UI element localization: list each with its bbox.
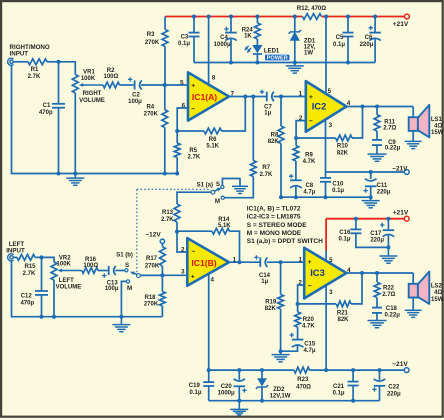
wire R14 to out node — [230, 231, 240, 262]
node C1 bus — [57, 172, 61, 176]
ground bottom — [230, 401, 248, 415]
wire C3 to ground line — [193, 37, 195, 62]
label R5 — [188, 148, 201, 161]
wire ZD1 to ground line — [294, 40, 296, 62]
label C19 — [189, 383, 202, 396]
node C12 bus — [40, 315, 44, 319]
node ZD2 bus — [260, 368, 264, 372]
ground top-left bus — [66, 174, 84, 186]
wire bus to C20 — [238, 370, 240, 380]
potentiometer VR2 — [51, 262, 57, 280]
label LS1 — [431, 117, 444, 136]
wire C17 to node — [387, 236, 389, 248]
wire node to R18 — [161, 275, 163, 291]
resistor R20 — [295, 312, 301, 327]
svg-text:C6: C6 — [365, 35, 373, 41]
ground bottom-left bus — [112, 317, 130, 332]
node out R22 — [375, 271, 379, 275]
capacitor C7 — [267, 92, 274, 102]
label M contact a — [215, 198, 220, 205]
svg-text:4.7K: 4.7K — [302, 324, 315, 330]
svg-text:270K: 270K — [145, 263, 160, 269]
ground LS2 — [405, 310, 422, 317]
svg-text:4.7μ: 4.7μ — [303, 348, 315, 354]
svg-text:1: 1 — [298, 256, 302, 263]
label R20 — [302, 317, 315, 330]
label C13 — [105, 280, 119, 292]
label C1 — [39, 103, 53, 116]
node gnd LED1 — [255, 61, 259, 65]
wire C19 to bottom line — [208, 387, 210, 401]
svg-text:82K: 82K — [337, 317, 349, 323]
capacitor C19 — [203, 382, 214, 386]
wire C13 to S contact b — [115, 270, 125, 272]
svg-text:470p: 470p — [39, 110, 53, 116]
note dpdt — [247, 238, 323, 245]
wire pole a to R13 — [177, 192, 211, 204]
svg-text:C21: C21 — [333, 384, 345, 390]
ground C18 — [368, 321, 387, 328]
marker IC1A minus — [191, 106, 195, 113]
wire mid ground line — [281, 196, 371, 198]
pin 4 IC1B — [210, 276, 214, 283]
svg-text:220μ: 220μ — [360, 42, 374, 48]
plus C17 — [380, 223, 384, 227]
wire C22 to bottom line — [379, 386, 381, 400]
svg-text:IC1(A): IC1(A) — [192, 92, 217, 102]
svg-text:−: − — [308, 283, 312, 290]
label C10 — [332, 181, 344, 194]
pin 1 IC1B — [233, 256, 237, 263]
wire R5 to bus — [176, 158, 178, 174]
label C15 — [303, 342, 315, 355]
svg-text:IC1(A, B) = TL072: IC1(A, B) = TL072 — [247, 205, 301, 212]
svg-text:R6: R6 — [209, 137, 217, 143]
wire pin3 row — [140, 274, 187, 276]
wire +21V rail left segment — [165, 16, 302, 18]
node R4 bus — [163, 172, 167, 176]
label R13 — [161, 210, 174, 223]
svg-text:R13: R13 — [162, 210, 174, 216]
svg-text:C10: C10 — [332, 181, 344, 187]
wire C7 to IC2 pin1 — [274, 96, 306, 98]
node out R10fb — [361, 105, 365, 109]
wire LS2 to ground — [412, 298, 414, 311]
op-amp IC1(A) — [188, 72, 229, 120]
node rail C6 — [373, 15, 377, 19]
wiper VR1 — [79, 83, 103, 87]
wire R19 top — [280, 262, 282, 294]
wire rail to ZD1 — [294, 17, 296, 32]
pin 2 IC1B — [181, 246, 185, 253]
op-amp IC2 — [306, 81, 347, 132]
label C12 — [20, 294, 34, 307]
svg-text:15W: 15W — [431, 130, 444, 136]
svg-text:−: − — [192, 248, 196, 255]
wire IC3 pin3 to bus — [325, 285, 327, 370]
node R5 bus — [175, 172, 179, 176]
label R16 — [83, 257, 98, 269]
ground top section — [286, 63, 304, 74]
resistor R11 — [374, 115, 380, 131]
node rail C16 — [354, 217, 358, 221]
node pin3 row — [160, 273, 164, 277]
svg-text:S: S — [125, 262, 129, 269]
label R19 — [265, 299, 277, 312]
pin 4 IC3 — [347, 267, 351, 274]
plus C8 — [289, 174, 293, 178]
wire rail to R24 — [256, 17, 258, 23]
svg-text:−: − — [309, 118, 313, 125]
wire rail to IC1 pin8 — [208, 17, 210, 85]
svg-text:C15: C15 — [304, 342, 316, 348]
marker IC1B minus — [192, 248, 196, 255]
ground R19 — [272, 351, 290, 362]
resistor R7 — [250, 161, 256, 177]
label C21 — [333, 384, 345, 397]
svg-text:4Ω: 4Ω — [434, 124, 442, 130]
label C4 — [214, 35, 231, 48]
label LEFT VOLUME — [56, 278, 82, 291]
wire R10 to out — [352, 107, 363, 139]
label VR1 — [81, 70, 96, 82]
wire M contact b to bus — [121, 281, 126, 316]
wire node to VR1 — [59, 62, 76, 75]
ground LS1 — [405, 141, 422, 148]
svg-text:C8: C8 — [305, 183, 313, 189]
svg-text:M = MONO MODE: M = MONO MODE — [247, 230, 302, 237]
svg-text:LEFT: LEFT — [59, 278, 74, 284]
label +21V top — [393, 21, 409, 28]
svg-text:2.7K: 2.7K — [188, 155, 201, 161]
wire R3 to pin5 node — [164, 47, 166, 86]
label IC2 — [312, 101, 327, 112]
wire C12 to bus — [41, 296, 43, 317]
marker IC2 plus — [309, 94, 313, 101]
wire R11 top — [376, 107, 378, 115]
svg-text:IC3: IC3 — [310, 267, 325, 278]
svg-text:470p: 470p — [20, 300, 34, 306]
svg-text:C19: C19 — [189, 383, 201, 389]
svg-text:82K: 82K — [268, 139, 280, 145]
pin 7 IC1A — [231, 90, 235, 97]
svg-text:2.7K: 2.7K — [23, 271, 36, 277]
svg-text:S1 (a): S1 (a) — [197, 183, 213, 189]
label R3 — [145, 32, 160, 46]
wire C16 to gnd link — [356, 234, 389, 248]
pin 2 IC3 — [298, 279, 302, 286]
node C7 R8 — [279, 95, 283, 99]
wire R19 to ground — [280, 309, 282, 351]
capacitor C18 — [372, 308, 382, 313]
contact S b — [125, 269, 128, 272]
node R15 C12 — [40, 255, 44, 259]
svg-text:100K: 100K — [57, 262, 72, 268]
label IC1(B) — [191, 258, 216, 268]
resistor R10 — [336, 135, 352, 141]
label IC1(A) — [192, 92, 217, 102]
wire rail to C5 — [347, 17, 349, 33]
svg-text:220μ: 220μ — [377, 190, 391, 196]
node pin5 — [163, 83, 167, 87]
svg-text:IC2-IC3 = LM1875: IC2-IC3 = LM1875 — [247, 214, 301, 221]
label C2 — [128, 92, 142, 105]
wire bus to ZD2 — [261, 370, 263, 379]
label R15 — [23, 264, 37, 277]
ground C16 C17 — [379, 247, 397, 263]
label R23 — [296, 377, 311, 391]
svg-text:R1: R1 — [31, 67, 39, 73]
wire rail to C6 — [374, 17, 376, 32]
svg-text:M: M — [127, 285, 132, 292]
wire ZD2 to bottom line — [261, 387, 263, 401]
resistor R9 — [293, 146, 299, 162]
svg-text:R22: R22 — [383, 286, 395, 292]
svg-text:0.1μ: 0.1μ — [332, 188, 344, 194]
node out fb B — [238, 260, 242, 264]
label LED1 — [264, 49, 280, 55]
wire input to R15 — [13, 256, 17, 258]
jack right input — [8, 58, 14, 65]
pin 5 IC3 — [329, 257, 333, 264]
svg-text:1000μ: 1000μ — [218, 390, 235, 396]
svg-text:C3: C3 — [181, 34, 189, 40]
node C21 bus — [351, 368, 355, 372]
wire rail to C16 — [355, 219, 357, 229]
svg-text:2.7K: 2.7K — [28, 74, 41, 80]
svg-text:S1 (a,b) = DPDT SWITCH: S1 (a,b) = DPDT SWITCH — [247, 238, 323, 245]
svg-text:INPUT: INPUT — [10, 50, 29, 57]
switch link dashed — [137, 189, 210, 272]
svg-text:R18: R18 — [144, 295, 156, 301]
svg-text:1K: 1K — [244, 33, 252, 39]
svg-text:1000μ: 1000μ — [214, 42, 231, 48]
svg-text:5: 5 — [180, 79, 184, 86]
wire C6 to ground line — [374, 39, 376, 62]
node rail C17 — [386, 217, 390, 221]
wire IC1A out — [229, 96, 266, 98]
resistor R3 — [162, 30, 168, 47]
svg-text:220μ: 220μ — [370, 238, 384, 244]
svg-text:+21V: +21V — [393, 209, 409, 216]
wire IC2 out — [346, 106, 413, 108]
svg-text:C1: C1 — [43, 103, 51, 109]
wire R18 to bus — [161, 306, 163, 317]
wire R20 top — [297, 304, 299, 312]
svg-text:ZD1: ZD1 — [304, 38, 316, 44]
wire -21V bus right — [310, 369, 405, 371]
label C9 — [385, 140, 401, 152]
svg-text:2.7K: 2.7K — [260, 172, 273, 178]
wire R7 to M contact — [225, 177, 254, 198]
svg-text:C14: C14 — [259, 273, 271, 279]
wire out to LS1 — [412, 107, 414, 118]
wire pin5 node to R4 — [164, 85, 166, 110]
svg-text:S1 (b): S1 (b) — [116, 253, 133, 259]
svg-text:VOLUME: VOLUME — [79, 98, 105, 104]
resistor R2 — [103, 82, 120, 88]
svg-text:INPUT: INPUT — [6, 247, 25, 254]
label M contact b — [127, 285, 132, 292]
wire top ground line — [194, 62, 375, 64]
node gnd ZD1 — [293, 61, 297, 65]
wire IC2 pin3 — [325, 120, 327, 173]
wire IC1A pin6 — [177, 108, 188, 131]
wiper VR2 — [58, 269, 82, 273]
svg-text:0.22μ: 0.22μ — [385, 146, 401, 152]
svg-text:1μ: 1μ — [264, 111, 271, 117]
terminal +21V top — [405, 14, 410, 19]
svg-text:0.1μ: 0.1μ — [333, 42, 345, 48]
ground S1a — [232, 186, 248, 193]
svg-text:LS1: LS1 — [431, 117, 443, 123]
label -21V upper — [392, 165, 408, 172]
svg-text:C12: C12 — [21, 294, 33, 300]
wire C14 to IC3 pin1 — [267, 261, 304, 263]
marker IC1A plus — [191, 82, 195, 89]
svg-text:220μ: 220μ — [387, 391, 401, 397]
label R2 — [103, 68, 118, 80]
label ZD1 — [304, 38, 316, 56]
wire pin5 node to IC1A — [165, 84, 188, 86]
label S contact b — [125, 262, 129, 269]
marker IC3 minus — [308, 283, 312, 290]
svg-text:C4: C4 — [220, 35, 228, 41]
wire bus to C22 — [379, 370, 381, 380]
label R14 — [218, 217, 231, 229]
label LS2 — [431, 284, 444, 303]
svg-text:R3: R3 — [147, 32, 155, 38]
label R9 — [303, 153, 316, 165]
svg-text:270K: 270K — [144, 302, 159, 308]
wire node to R10 — [296, 137, 336, 139]
capacitor C8 — [290, 180, 302, 188]
svg-text:0.1μ: 0.1μ — [178, 41, 190, 47]
lever S1b — [130, 272, 137, 275]
svg-text:4.7μ: 4.7μ — [303, 190, 315, 196]
resistor R12 — [302, 14, 321, 20]
wire IC1B pin4 to bus — [208, 274, 210, 370]
zener ZD2 — [256, 379, 268, 389]
resistor R6 — [204, 128, 222, 134]
svg-text:82K: 82K — [337, 150, 349, 156]
capacitor C6 — [369, 33, 381, 41]
svg-text:R12, 470Ω: R12, 470Ω — [297, 6, 326, 12]
wire node to VR2 — [42, 257, 55, 262]
wire LS1 to ground — [412, 131, 414, 142]
svg-text:R16: R16 — [85, 257, 97, 263]
terminal -21V lower — [404, 368, 409, 373]
capacitor C21 — [348, 382, 359, 386]
wire R6 to pin7 node — [222, 97, 246, 132]
label C8 — [303, 183, 315, 196]
capacitor C9 — [372, 140, 382, 145]
wire node to R6 — [177, 130, 204, 132]
wire node to R21 — [298, 303, 337, 305]
wire VR2 to bus — [53, 280, 55, 317]
wire C18 to ground — [376, 314, 378, 321]
node VR2 bus — [52, 315, 56, 319]
ground C9 — [368, 154, 387, 161]
wire R20 to C15 — [297, 327, 299, 339]
node rail C3 — [192, 15, 196, 19]
svg-text:15W: 15W — [431, 297, 444, 303]
node ZD2 gnd — [260, 399, 264, 403]
label C11 — [377, 183, 391, 196]
wire +21V rail right segment — [322, 16, 405, 18]
capacitor C15 — [292, 340, 304, 348]
wire +21V to IC3 pin5 red — [325, 219, 327, 251]
svg-text:100Ω: 100Ω — [103, 74, 118, 80]
label R10 — [337, 144, 349, 157]
svg-text:12V,1W: 12V,1W — [270, 393, 291, 399]
wire rail to C4 — [230, 17, 232, 32]
label R12 value — [297, 6, 326, 12]
resistor R23 — [294, 367, 310, 373]
svg-text:5: 5 — [329, 257, 333, 264]
wire rail to C17 — [387, 219, 389, 230]
plus C11 — [363, 188, 367, 192]
svg-text:C5: C5 — [336, 35, 344, 41]
svg-text:C18: C18 — [386, 306, 398, 312]
pin 5 IC1A — [180, 79, 184, 86]
contact M a — [221, 196, 224, 199]
svg-text:+21V: +21V — [393, 21, 409, 28]
svg-text:S = STEREO MODE: S = STEREO MODE — [247, 222, 307, 229]
svg-text:R4: R4 — [146, 104, 154, 110]
wire R22 to C18 — [376, 298, 378, 308]
node C8 gnd — [294, 195, 298, 199]
node rail C4 — [229, 15, 233, 19]
svg-text:−: − — [191, 106, 195, 113]
svg-text:4Ω: 4Ω — [434, 290, 442, 296]
wire LED1 to ground line — [256, 54, 258, 63]
wire R7 top — [252, 97, 254, 161]
svg-text:R23: R23 — [297, 377, 309, 383]
node C11 top — [369, 170, 373, 174]
label R8 — [268, 132, 280, 144]
label S1 (b) — [116, 253, 133, 259]
pin 1 IC3 — [298, 256, 302, 263]
resistor R13 — [174, 204, 180, 222]
pin 2 IC2 — [299, 115, 303, 122]
contact M b — [126, 280, 129, 283]
wire C15 bottom link — [281, 345, 298, 351]
svg-text:3: 3 — [329, 289, 333, 296]
wire C4 to ground line — [230, 39, 232, 62]
svg-text:C16: C16 — [339, 230, 351, 236]
pin 3 IC1B — [181, 269, 185, 276]
svg-text:R5: R5 — [189, 148, 197, 154]
resistor R4 — [162, 110, 168, 128]
capacitor C14 — [260, 257, 267, 267]
wire C8 to ground line — [295, 187, 297, 198]
marker IC3 plus — [308, 259, 312, 266]
wire -21V line — [326, 171, 405, 173]
terminal +21V lower — [404, 216, 409, 221]
node R8 gnd — [279, 195, 283, 199]
svg-text:0.22μ: 0.22μ — [385, 313, 401, 319]
resistor R14 — [212, 228, 230, 234]
svg-text:100μ: 100μ — [128, 99, 142, 105]
resistor R24 — [255, 23, 261, 39]
resistor R5 — [174, 143, 180, 158]
label LEFT INPUT — [6, 241, 25, 255]
wire rail to C3 — [193, 17, 195, 33]
wire out to LS2 — [412, 273, 414, 284]
wire IC3 out — [346, 272, 413, 274]
node R13 R14 pin2 — [175, 230, 179, 234]
